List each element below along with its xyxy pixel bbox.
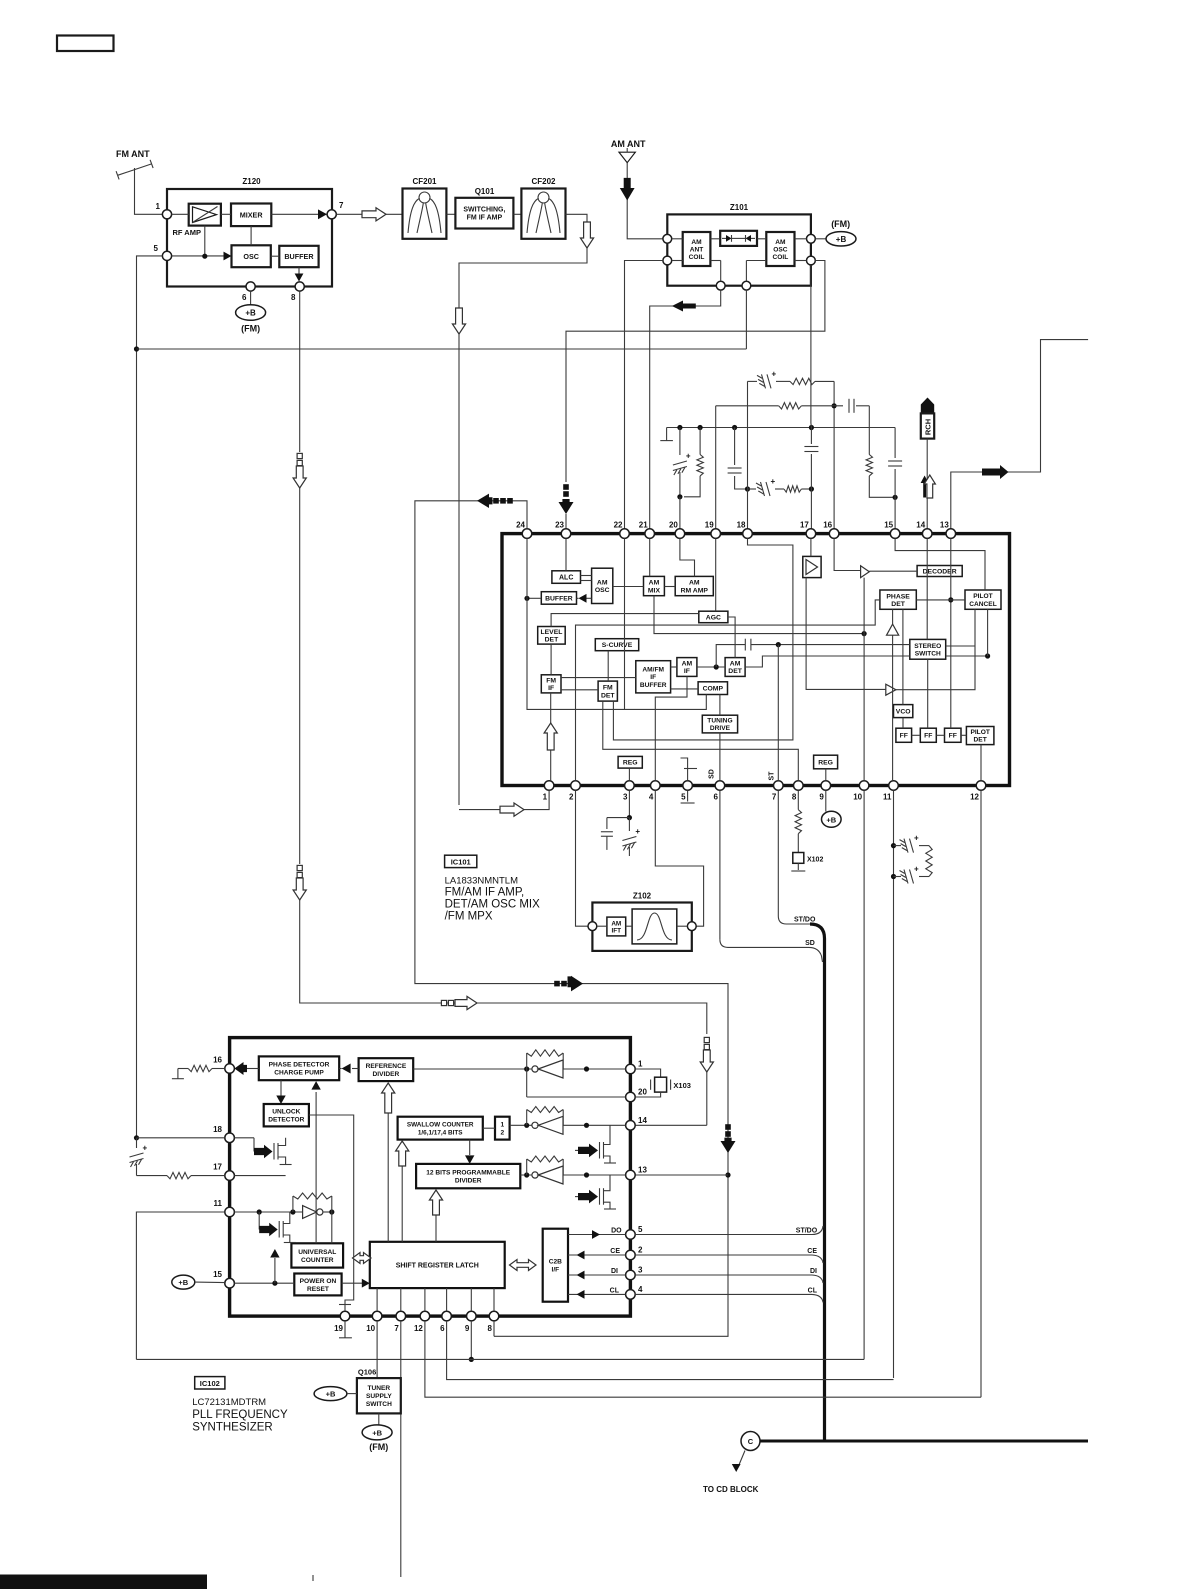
svg-text:SD: SD (805, 940, 815, 947)
svg-text:1: 1 (156, 202, 161, 211)
svg-text:OSC: OSC (595, 587, 610, 594)
svg-text:UNIVERSAL: UNIVERSAL (298, 1249, 336, 1256)
svg-text:PHASE: PHASE (886, 593, 910, 600)
wire pin1 to RF amp (172, 213, 189, 215)
svg-text:COIL: COIL (773, 254, 789, 261)
wire CF201 to Q101 (446, 213, 455, 215)
svg-text:11: 11 (214, 1199, 223, 1208)
svg-text:DIVIDER: DIVIDER (455, 1177, 482, 1184)
wire IC101 pin12 long net (980, 790, 982, 1397)
IC102 part label box (195, 1377, 225, 1389)
feedback resistor pin14 (526, 1110, 528, 1126)
resistor parallel at pin 20 (699, 428, 701, 455)
svg-text:FM/AM IF AMP,: FM/AM IF AMP, (445, 887, 525, 899)
wire pin9 to REG right (825, 769, 827, 781)
svg-text:BUFFER: BUFFER (640, 682, 667, 689)
REG block right (814, 755, 838, 769)
svg-text:18: 18 (213, 1125, 222, 1134)
IC101 pin 23 (561, 529, 571, 539)
Z101 pin A (663, 234, 672, 243)
MOSFET buffer pin13 (575, 1196, 578, 1198)
AM in row pin 13 (520, 1174, 625, 1176)
wire pin20 to AM RM AMP (680, 538, 695, 576)
svg-text:ALC: ALC (559, 575, 573, 582)
connector C to CD block (741, 1432, 760, 1451)
wires Z101 row B (672, 260, 683, 262)
double arrow SRL-C2B (510, 1260, 537, 1271)
feedback resistor pin1 (526, 1053, 528, 1069)
svg-text:CE: CE (610, 1248, 620, 1255)
wire coil tap F to FM AGC line (745, 290, 747, 349)
wire pin 6 row (447, 1321, 894, 1380)
bus line to CD block (760, 1440, 1088, 1443)
wire pin23 to ALC (565, 538, 567, 570)
ground stub at pin 5 (687, 790, 689, 801)
svg-text:6: 6 (713, 793, 718, 802)
wire to pin 18 (137, 1137, 225, 1139)
electrolytic cap pin11 lower (894, 876, 902, 878)
svg-text:RF AMP: RF AMP (173, 228, 201, 237)
feedback resistor pin13 (526, 1159, 528, 1175)
arrow REF DIV to PDCP (352, 1068, 359, 1070)
top branch1: electrolytic + R pin18-pin16 (748, 380, 758, 382)
AM MIX block (644, 576, 665, 595)
svg-text:2: 2 (500, 1130, 504, 1137)
svg-text:+: + (914, 834, 919, 843)
svg-text:AM: AM (682, 661, 693, 668)
IC101 pin 9 (821, 781, 831, 791)
svg-text:Z120: Z120 (242, 177, 261, 186)
wire mixer to pin7 (271, 213, 327, 215)
crystal osc row pin 1 (413, 1068, 625, 1070)
wire VCO to FF1 (902, 718, 904, 729)
RF amp (189, 204, 221, 226)
svg-text:6: 6 (242, 293, 247, 302)
IC102 pin 9 (467, 1311, 477, 1321)
arrow to CD block (739, 1451, 746, 1467)
IC102 pin 1 (626, 1064, 636, 1074)
IC101 pin 18 (743, 529, 753, 539)
hollow arrow FM osc net 2 (293, 878, 306, 900)
svg-text:TUNER: TUNER (367, 1385, 390, 1392)
wire IC101 pin10 long net (863, 790, 865, 1359)
wire RF amp to mixer (221, 213, 231, 215)
FF block 2 (920, 728, 936, 742)
svg-text:DO: DO (611, 1228, 622, 1235)
svg-text:COIL: COIL (689, 254, 705, 261)
crystal X102 (793, 853, 804, 864)
wire AGC to AM DET (728, 617, 735, 658)
Z120 pin 1 (162, 210, 171, 219)
inverter pin14 (532, 1122, 538, 1128)
AM DET block (725, 658, 745, 677)
ALC block (552, 571, 581, 584)
svg-text:17: 17 (213, 1163, 222, 1172)
connector squares FM osc net (297, 453, 302, 458)
svg-text:ST: ST (769, 771, 776, 781)
svg-text:IFT: IFT (612, 927, 622, 934)
wire PILOT DET to pin 12 (980, 745, 982, 781)
svg-text:12: 12 (970, 793, 979, 802)
wire pin17 internal (234, 1175, 285, 1177)
svg-text:RM AMP: RM AMP (681, 587, 709, 594)
AM RM AMP block (675, 576, 713, 595)
amp triangle near decoder (861, 566, 870, 578)
svg-text:ST/DO: ST/DO (796, 1228, 818, 1235)
wire pin13 to FF3 (950, 538, 952, 728)
COMP block (698, 682, 727, 695)
wire pin17 to buffer amp (810, 538, 812, 556)
wire FF chain (912, 734, 921, 736)
Z120 pin 7 (327, 210, 336, 219)
wire stereo switch right upper (946, 645, 975, 647)
svg-text:15: 15 (884, 521, 893, 530)
IC101 LA1833NMNTLM body (502, 534, 1010, 786)
svg-text:STEREO: STEREO (914, 643, 941, 650)
svg-text:15: 15 (213, 1270, 222, 1279)
svg-text:RCH: RCH (924, 419, 933, 435)
wire +B row to POWER ON RESET (234, 1282, 294, 1284)
arrow PDCP to UNLOCK DET (280, 1080, 282, 1096)
AM in glyph squares+arrow (563, 484, 569, 490)
double arrow up on RCH line (921, 476, 929, 498)
IC102 pin 13 (626, 1170, 636, 1180)
FM IF block (541, 675, 561, 693)
IC102 pin 18 (225, 1133, 235, 1143)
C2B DI row (568, 1274, 626, 1276)
IC101 pin 12 (976, 781, 986, 791)
svg-text:(FM): (FM) (241, 324, 260, 334)
svg-text:DET/AM OSC MIX: DET/AM OSC MIX (445, 899, 541, 911)
svg-text:DI: DI (810, 1268, 817, 1275)
svg-text:CF201: CF201 (412, 177, 437, 186)
svg-text:I/F: I/F (551, 1267, 559, 1274)
branch up from +B row (274, 1258, 276, 1283)
svg-text:RESET: RESET (307, 1286, 329, 1293)
wire IC101 pin7 ST/DO out (778, 790, 810, 924)
wire Q101 to CF202 (513, 213, 521, 215)
IC101 pin 1 (544, 781, 554, 791)
svg-text:DI: DI (611, 1268, 618, 1275)
wire Z120 pin8 buffer out long net (299, 291, 301, 452)
svg-text:+B: +B (178, 1278, 188, 1287)
buffer block (279, 246, 318, 267)
svg-text:PILOT: PILOT (970, 729, 989, 736)
wire LEVEL DET to FM IF (550, 644, 552, 675)
ground at pin 19 (344, 1321, 346, 1338)
IC101 pin 2 (571, 781, 581, 791)
wire osc to buffer (271, 255, 280, 257)
IC101 pin 22 (620, 529, 630, 539)
MOSFET at pin 18 (234, 1137, 254, 1139)
serial bus to CD block (810, 924, 825, 1441)
svg-text:SYNTHESIZER: SYNTHESIZER (192, 1422, 273, 1434)
Z101 pin B (663, 256, 672, 265)
svg-text:X103: X103 (673, 1081, 691, 1090)
wire pin 11 external to bottom row (136, 1212, 224, 1359)
wire junction to coupling cap (716, 645, 745, 667)
svg-text:24: 24 (516, 521, 525, 530)
CL bus join (635, 1293, 812, 1295)
Z102 filter element (632, 909, 677, 944)
svg-text:Z101: Z101 (730, 203, 749, 212)
svg-text:20: 20 (669, 521, 678, 530)
svg-text:TUNING: TUNING (707, 718, 732, 725)
connector squares to PLL (441, 1000, 446, 1005)
IC101 pin16 external vertical (833, 381, 835, 528)
svg-text:IF: IF (684, 668, 690, 675)
wire Z101 C to +B (815, 238, 826, 240)
IC102 pin 8 (489, 1311, 499, 1321)
wire pin14 to stereo switch (926, 538, 928, 639)
wire RF amp bias to osc node (204, 226, 206, 257)
resistor on 489 row (784, 486, 801, 492)
svg-text:AM: AM (775, 239, 786, 246)
svg-text:2: 2 (638, 1246, 643, 1255)
svg-text:LEVEL: LEVEL (540, 629, 562, 636)
wire UNLOCK DET to pin 19 stub (309, 1115, 354, 1311)
Z102 internal wires (597, 925, 607, 927)
svg-text:TO CD BLOCK: TO CD BLOCK (703, 1485, 759, 1494)
FF block 3 (945, 728, 962, 742)
resistor pin11 net (926, 846, 932, 877)
Z101 pin C (807, 234, 816, 243)
wire FM IF to AM/FM IF BUFFER (561, 677, 636, 679)
svg-text:S-CURVE: S-CURVE (602, 642, 633, 649)
svg-text:+: + (143, 1144, 148, 1153)
svg-text:REG: REG (818, 759, 833, 766)
wire FM DET to pin 8 (603, 701, 799, 781)
wire buffer to pin 8 (298, 267, 300, 279)
svg-text:+: + (771, 477, 776, 486)
wire PDCP to UNIVERSAL COUNTER with up arrow (315, 1092, 317, 1243)
svg-text:8: 8 (792, 793, 797, 802)
svg-text:+B: +B (836, 235, 847, 244)
wire AM/FM buffer to AM IF (671, 666, 677, 668)
IC101 pin 4 (651, 781, 661, 791)
electrolytic cap at pin 3 (628, 818, 630, 831)
wire CF202 to IC101 pin 1 (FM IF) (459, 214, 587, 805)
svg-text:FM: FM (546, 677, 556, 684)
svg-text:CL: CL (610, 1287, 620, 1294)
wire SRL to REFERENCE DIVIDER with up arrow (387, 1101, 389, 1242)
wire IC101 pin4 to Z102 out (655, 790, 703, 926)
svg-text:7: 7 (394, 1324, 399, 1333)
IC101 pin 8 (794, 781, 804, 791)
svg-text:SWALLOW COUNTER: SWALLOW COUNTER (407, 1121, 474, 1128)
electrolytic C at pin 20 (679, 428, 681, 456)
wire SRL to SWALLOW COUNTER with up arrow (401, 1160, 403, 1242)
wire pin5 to osc (172, 255, 225, 257)
AGC block (699, 611, 728, 623)
Z120 pin 5 (162, 251, 171, 260)
wire buffer amp to mid amp (806, 578, 886, 690)
amp triangle mid right (886, 684, 896, 695)
svg-text:DRIVE: DRIVE (710, 725, 731, 732)
wire stereo switch to FF2 (927, 659, 929, 728)
amp triangle below phase det (887, 624, 899, 635)
svg-text:SHIFT REGISTER LATCH: SHIFT REGISTER LATCH (396, 1262, 479, 1269)
IC102 pin 5 (626, 1230, 636, 1240)
svg-text:IC101: IC101 (451, 857, 471, 866)
Z101 pin D (807, 256, 816, 265)
IC102 pin 12 (420, 1311, 430, 1321)
MOSFET buffer pin14 (575, 1149, 578, 1151)
varactor diode pair (720, 231, 757, 246)
wire amp to pin10 (863, 578, 865, 781)
svg-text:AM: AM (649, 580, 660, 587)
AM ANT COIL (683, 232, 711, 266)
C2B CL row (568, 1293, 626, 1295)
wire S-CURVE to FM DET (607, 651, 609, 681)
inverter pin13 (532, 1172, 538, 1178)
junction row/pin17 (809, 425, 814, 430)
ground stub left of row (666, 428, 668, 441)
wire FM ANT to Z120 pin 1 (135, 168, 163, 214)
capacitor at pin 18 net (734, 428, 736, 466)
svg-text:UNLOCK: UNLOCK (272, 1109, 300, 1116)
connector squares at IC102 pin14 drop (704, 1037, 709, 1042)
svg-text:1: 1 (543, 793, 548, 802)
svg-text:PILOT: PILOT (973, 593, 992, 600)
svg-text:AM: AM (689, 580, 700, 587)
junction pin10 net (862, 631, 867, 636)
hollow arrow at IC102 pin14 drop (700, 1050, 713, 1072)
svg-text:1: 1 (500, 1122, 504, 1129)
svg-text:+: + (686, 452, 691, 461)
svg-text:DIVIDER: DIVIDER (373, 1071, 400, 1078)
IC102 pin 6 (442, 1311, 452, 1321)
svg-text:Z102: Z102 (633, 892, 652, 901)
wire RCH to IC101 pin 14 (926, 439, 928, 529)
svg-text:9: 9 (465, 1324, 470, 1333)
C2B CE row (568, 1254, 626, 1256)
pin5 internal stub (681, 758, 688, 781)
svg-text:8: 8 (291, 293, 296, 302)
wire ALC to AM OSC (double) (581, 575, 592, 577)
IC101 pin 13 (946, 529, 956, 539)
svg-text:SWITCH: SWITCH (915, 650, 941, 657)
svg-text:CL: CL (808, 1287, 818, 1294)
UNLOCK DETECTOR block (264, 1104, 309, 1126)
Z120 pin 8 (295, 282, 304, 291)
junction pin15 node (893, 495, 898, 500)
FM DET block (598, 681, 617, 701)
FM front end Z120 (167, 189, 332, 287)
osc row pin 20 (527, 1096, 626, 1098)
svg-text:+B: +B (245, 309, 256, 318)
svg-text:AM ANT: AM ANT (611, 139, 646, 149)
ceramic filter CF201 (403, 189, 447, 239)
svg-text:BUFFER: BUFFER (545, 595, 573, 602)
IC102 pin 2 (626, 1250, 636, 1260)
LEVEL DET block (538, 627, 566, 645)
Z102 right pin (687, 922, 696, 931)
svg-text:CHARGE PUMP: CHARGE PUMP (274, 1070, 324, 1077)
mixer block (231, 204, 271, 227)
DI bus join (635, 1274, 812, 1276)
junction AGC net / pin 18 (134, 1135, 139, 1140)
arrow on pin13 output (982, 465, 1009, 479)
wire to UNIVERSAL COUNTER (331, 1212, 333, 1243)
svg-text:21: 21 (639, 521, 648, 530)
wire IC101 pin1 external (459, 790, 549, 809)
svg-text:VCO: VCO (896, 709, 911, 716)
svg-text:(FM): (FM) (369, 1442, 388, 1452)
VCO block (894, 705, 913, 718)
svg-text:X102: X102 (807, 857, 823, 864)
junction row/pin20 (677, 425, 682, 430)
IC101 pin 6 (715, 781, 725, 791)
svg-text:3: 3 (638, 1266, 643, 1275)
wire pin7 up to ST line (777, 645, 779, 781)
svg-text:FF: FF (924, 733, 932, 740)
junction AGC net (134, 346, 139, 351)
IC102 pin 14 (626, 1121, 636, 1131)
IC101 pin 24 (522, 529, 532, 539)
svg-text:10: 10 (366, 1324, 375, 1333)
FM in row pin 14 (510, 1124, 626, 1126)
FF block 1 (896, 728, 912, 742)
wire IC102 pin13 to net (635, 1174, 728, 1176)
footer tick (312, 1575, 314, 1581)
wire SWALLOW to 1/2 box (483, 1127, 495, 1129)
ground + resistor at pin 16 (178, 1068, 188, 1070)
IC101 pin 16 (829, 529, 839, 539)
svg-text:18: 18 (737, 521, 746, 530)
svg-text:/FM MPX: /FM MPX (445, 911, 493, 923)
wire FM IF to pin 1 (550, 693, 552, 781)
svg-text:DET: DET (545, 637, 559, 644)
UNIVERSAL COUNTER block (291, 1243, 343, 1267)
BUFFER block (541, 592, 576, 605)
PILOT CANCEL block (965, 590, 1001, 609)
TUNING DRIVE block (702, 715, 737, 733)
capacitor on pin17 line (810, 423, 813, 428)
wire pin16 to decoder amp (834, 538, 861, 570)
svg-text:CF202: CF202 (531, 177, 556, 186)
wire FM IF to FM DET (561, 689, 598, 691)
S-CURVE block (595, 639, 638, 651)
svg-text:FM IF AMP: FM IF AMP (467, 215, 503, 222)
svg-text:DET: DET (601, 692, 615, 699)
svg-text:23: 23 (555, 521, 564, 530)
signal arrow into pin 1 (500, 803, 524, 816)
IC101 pin 19 (711, 529, 721, 539)
svg-text:+: + (635, 827, 640, 836)
connector squares FM osc net 2 (297, 865, 302, 870)
IC101 pin 20 (675, 529, 685, 539)
IC102 pin 4 (626, 1290, 636, 1300)
svg-text:PHASE DETECTOR: PHASE DETECTOR (269, 1062, 330, 1069)
SRL to bottom pins wires (376, 1288, 378, 1311)
electrolytic cap pin11 upper (894, 845, 902, 847)
svg-text:AM: AM (597, 579, 608, 586)
svg-text:FF: FF (900, 733, 908, 740)
wire AM ANT to Z101 (627, 163, 663, 239)
wire AM MIX to pin10 net (654, 596, 864, 634)
svg-text:11: 11 (883, 793, 892, 802)
svg-text:3: 3 (623, 793, 628, 802)
junction pin11 RC top (891, 843, 896, 848)
IC101 pin13 output wire (to MPX) (951, 340, 1088, 529)
svg-text:12: 12 (414, 1324, 423, 1333)
svg-text:MIXER: MIXER (240, 210, 264, 219)
MOSFET at pin 11 (258, 1212, 260, 1230)
feedback resistor pin11 row (292, 1196, 294, 1212)
AM coil pack Z101 (667, 214, 811, 285)
svg-text:PLL FREQUENCY: PLL FREQUENCY (192, 1409, 288, 1421)
